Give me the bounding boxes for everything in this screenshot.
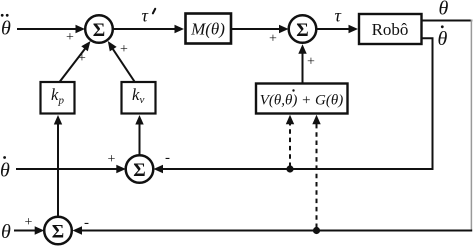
wire: kv diagonal to sum1	[111, 46, 135, 83]
svg-text:Σ: Σ	[133, 160, 145, 181]
wire: theta-dd input to sum1	[17, 28, 78, 30]
summing junction sum2	[289, 15, 317, 43]
svg-text:+: +	[25, 215, 33, 230]
svg-text:θ: θ	[439, 0, 449, 19]
block kv	[122, 82, 156, 114]
summing junction sum4	[44, 217, 72, 245]
wire: theta-dot input to sum3	[16, 168, 119, 170]
node theta-dd label	[1, 14, 11, 40]
dashed wire: theta-dot line up into V block	[289, 121, 291, 167]
block Robo	[359, 14, 422, 44]
wire: sum1 to M block	[113, 28, 178, 30]
svg-text:+: +	[108, 152, 116, 167]
block kp	[41, 82, 75, 114]
svg-text:τ: τ	[335, 6, 342, 26]
svg-text:+: +	[307, 55, 315, 70]
junction dot on theta-dot line	[286, 165, 293, 172]
block M(theta)	[186, 14, 232, 44]
svg-text:M(θ): M(θ)	[190, 20, 225, 39]
summing junction sum1	[85, 15, 113, 43]
svg-text:Σ: Σ	[296, 20, 308, 41]
junction dot on theta line	[313, 227, 320, 234]
svg-text:V(θ,θ) + G(θ): V(θ,θ) + G(θ)	[260, 93, 343, 109]
node theta-dot input label (middle left)	[0, 156, 10, 181]
svg-text:θ: θ	[1, 18, 11, 40]
dashed wire: theta line up into V block	[316, 121, 318, 228]
block V(theta,theta-dot)+G(theta)	[256, 84, 348, 114]
svg-text:-: -	[165, 150, 170, 166]
svg-text:-: -	[84, 215, 89, 231]
node theta-dot output label (right)	[438, 25, 448, 49]
wire: sum3 up to kv	[139, 123, 141, 155]
svg-text:p: p	[58, 95, 65, 107]
svg-text:θ: θ	[1, 221, 11, 243]
wire: theta input to sum4	[14, 230, 38, 232]
wire: Robo theta output feedback (top, right edge, bottom to sum4)	[422, 20, 473, 22]
wire: V block up to sum2	[302, 51, 304, 83]
svg-text:+: +	[78, 51, 86, 66]
svg-text:θ: θ	[0, 160, 10, 182]
summing junction sum3	[126, 155, 154, 183]
svg-text:+: +	[66, 30, 74, 45]
svg-text:v: v	[140, 94, 145, 106]
svg-text:Σ: Σ	[93, 20, 105, 41]
svg-text:+: +	[269, 32, 277, 47]
svg-text:Σ: Σ	[52, 221, 64, 242]
svg-text:τ: τ	[142, 5, 149, 25]
wire: Robo theta-dot output feedback to sum3	[160, 38, 433, 169]
svg-text:+: +	[120, 42, 128, 57]
svg-text:Robô: Robô	[372, 20, 409, 39]
wire: sum4 up to kp	[57, 123, 59, 217]
wire: kp diagonal to sum1	[60, 46, 88, 83]
svg-text:θ: θ	[438, 28, 448, 50]
wire: sum2 to Robo block	[316, 28, 351, 30]
wire: M block to sum2	[232, 28, 282, 30]
